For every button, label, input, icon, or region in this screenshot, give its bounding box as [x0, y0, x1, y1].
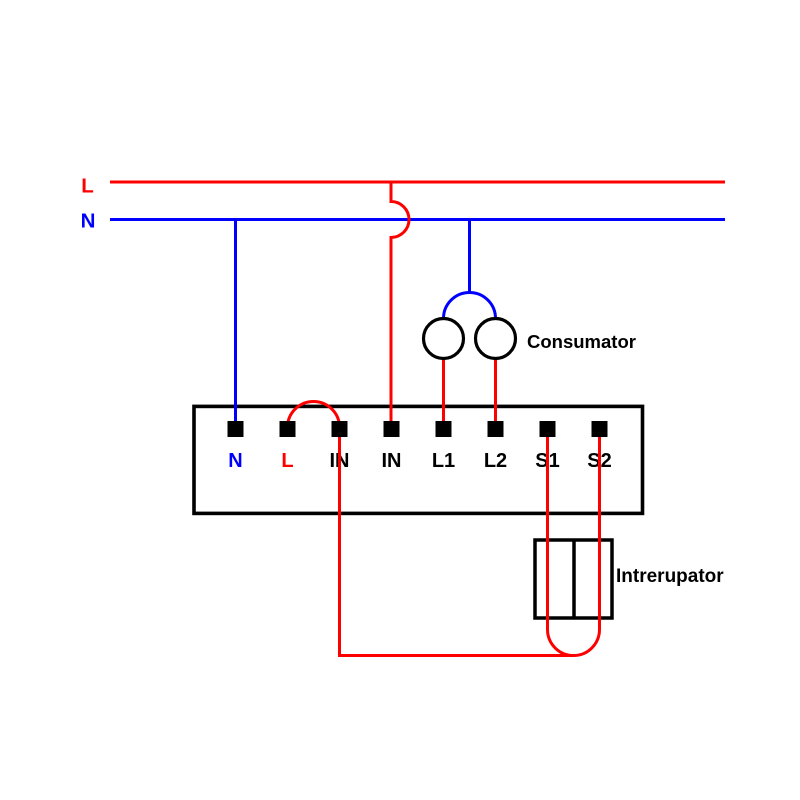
- switch box (Intrerupator): [535, 540, 612, 618]
- terminal square L2: [488, 421, 504, 437]
- wire N bus: [110, 218, 725, 221]
- terminal square S2: [592, 421, 608, 437]
- wire L bus: [110, 181, 725, 184]
- relay terminal box: [194, 406, 643, 513]
- svg-text:N: N: [228, 450, 242, 472]
- svg-text:L: L: [281, 450, 293, 472]
- svg-text:L: L: [81, 175, 94, 198]
- lamp 1 (consumer): [424, 319, 464, 359]
- switch box divider: [572, 540, 576, 618]
- terminal square IN1: [332, 421, 348, 437]
- wire N drop to terminal N: [234, 220, 237, 422]
- svg-text:L2: L2: [484, 450, 507, 472]
- terminal square S1: [540, 421, 556, 437]
- terminal square L: [280, 421, 296, 437]
- wire blue arc to both lamp tops: [444, 293, 496, 319]
- wire N drop to lamps: [468, 220, 471, 293]
- wire lamp1 to terminal L1: [442, 359, 445, 422]
- terminal square IN2: [384, 421, 400, 437]
- svg-text:N: N: [81, 210, 96, 233]
- wire terminal S1 through switch, U-turn to S2: [548, 437, 600, 656]
- terminal square N: [228, 421, 244, 437]
- svg-text:IN: IN: [382, 450, 402, 472]
- lamp 2 (consumer): [476, 319, 516, 359]
- svg-text:L1: L1: [432, 450, 455, 472]
- svg-text:Intrerupator: Intrerupator: [616, 566, 724, 587]
- svg-text:Consumator: Consumator: [527, 331, 636, 352]
- terminal square L1: [436, 421, 452, 437]
- wire red arc jumper terminal L to terminal IN1: [288, 402, 340, 428]
- wire L drop with hop over N bus to terminal IN2: [391, 182, 409, 421]
- wire terminal IN1 down and right to switch common: [340, 437, 574, 656]
- wire lamp2 to terminal L2: [494, 359, 497, 422]
